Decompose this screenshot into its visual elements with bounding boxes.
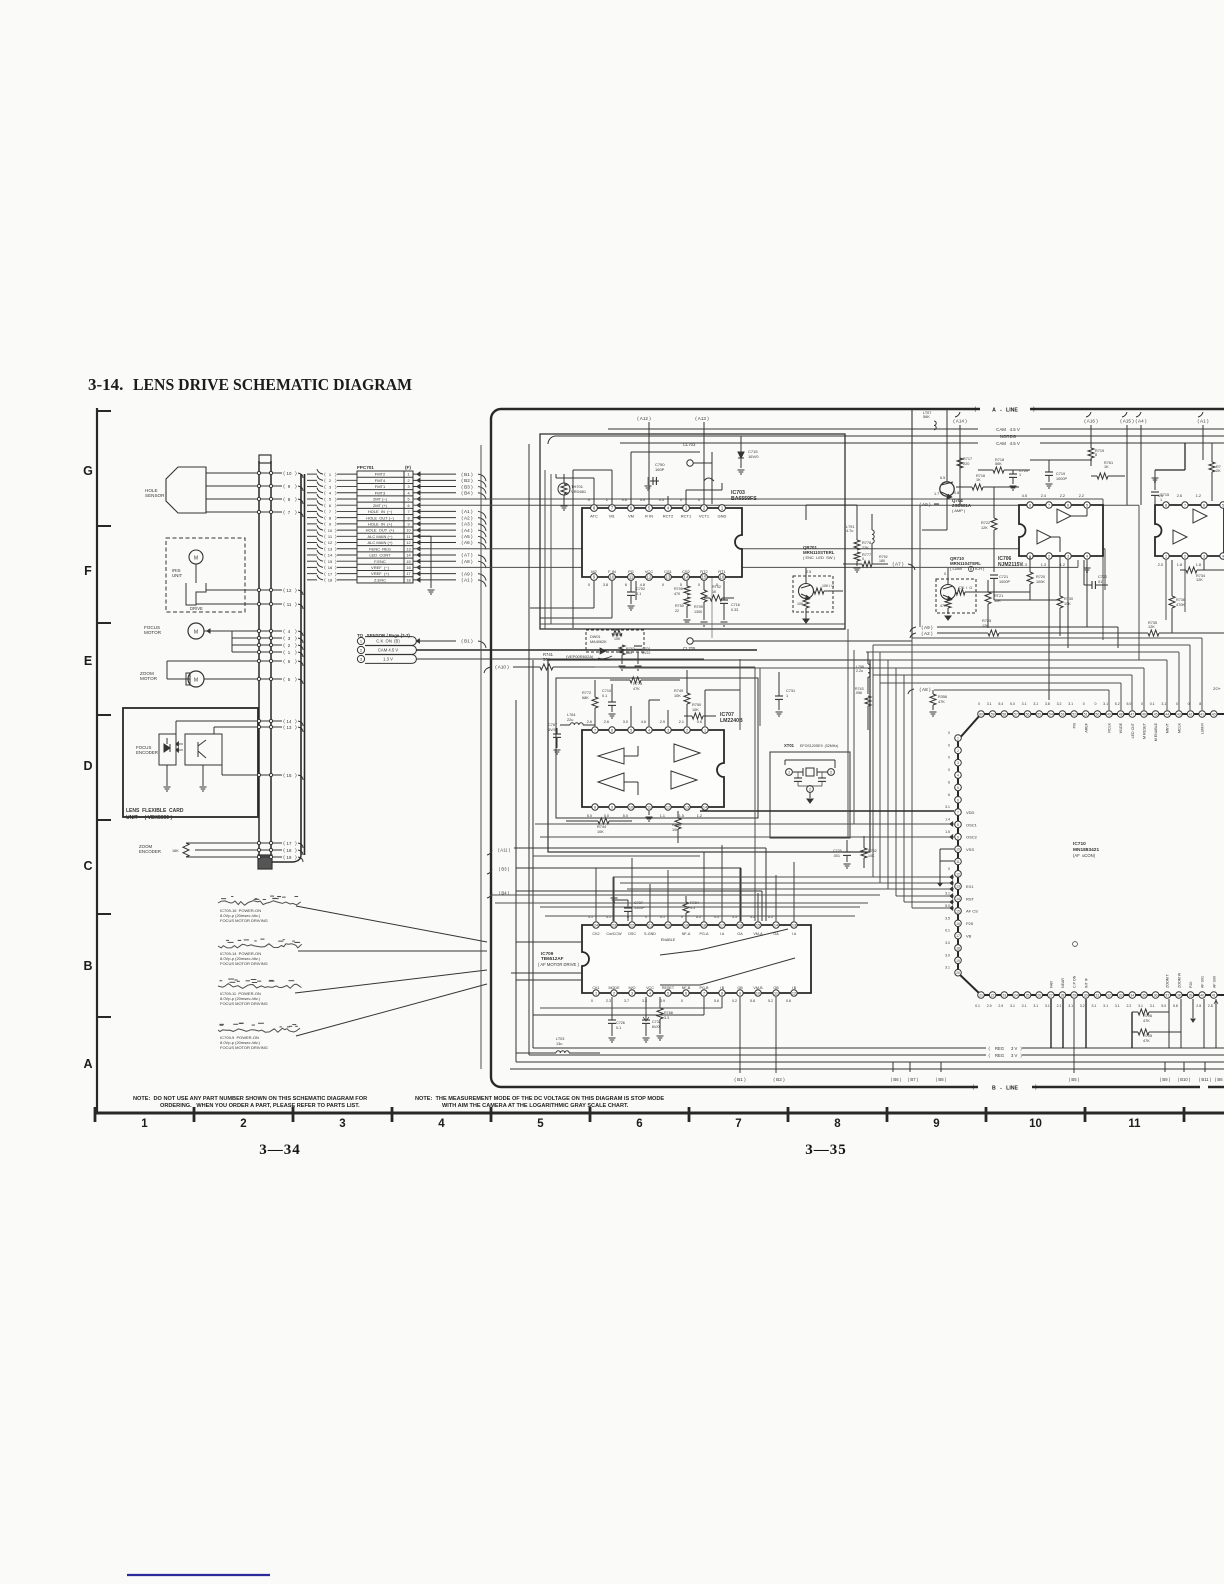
svg-text:2.6: 2.6 — [1177, 494, 1182, 498]
svg-text:FMT3: FMT3 — [375, 490, 386, 495]
svg-text:I A: I A — [720, 932, 725, 936]
svg-text:8: 8 — [721, 992, 723, 996]
svg-text:INT IF: INT IF — [1084, 977, 1088, 988]
svg-text:48: 48 — [1119, 713, 1123, 717]
svg-text:1: 1 — [595, 992, 597, 996]
svg-text:F IN: F IN — [608, 569, 616, 574]
svg-text:ZOOM T: ZOOM T — [1166, 973, 1170, 988]
svg-text:⟨: ⟨ — [283, 650, 285, 656]
svg-text:( A1 ): ( A1 ) — [1198, 419, 1209, 424]
svg-text:⟨: ⟨ — [324, 528, 326, 533]
svg-text:1.3 V: 1.3 V — [383, 657, 393, 662]
svg-text:(AF uCON): (AF uCON) — [1073, 853, 1096, 858]
svg-text:HOLE IN (+): HOLE IN (+) — [368, 521, 393, 526]
svg-text:58: 58 — [1002, 713, 1006, 717]
svg-text:⟩: ⟩ — [335, 491, 337, 496]
svg-text:C715: C715 — [1160, 493, 1169, 497]
svg-text:( A10 ): ( A10 ) — [495, 665, 509, 670]
svg-text:10K: 10K — [692, 708, 699, 712]
svg-text:8: 8 — [834, 1118, 841, 1130]
svg-text:ORDERING. WHEN YOU ORDER A P: ORDERING. WHEN YOU ORDER A PART, PLEASE … — [160, 1103, 360, 1109]
svg-text:3.1: 3.1 — [1022, 1004, 1027, 1008]
svg-text:35: 35 — [1142, 994, 1146, 998]
svg-text:M/O: M/O — [629, 986, 636, 990]
svg-text:PI0: PI0 — [1073, 723, 1077, 728]
svg-text:AF S01: AF S01 — [1201, 976, 1205, 988]
svg-text:12K: 12K — [1148, 625, 1155, 629]
svg-text:( B6 ): ( B6 ) — [891, 1077, 902, 1082]
svg-text:7: 7 — [407, 510, 409, 514]
svg-text:4: 4 — [1086, 555, 1088, 559]
svg-text:ENCODER: ENCODER — [136, 750, 158, 755]
svg-text:F: F — [84, 564, 92, 578]
svg-text:1K: 1K — [1104, 465, 1109, 469]
svg-text:11: 11 — [287, 602, 292, 607]
svg-text:22: 22 — [630, 924, 634, 928]
svg-text:4.5: 4.5 — [1022, 494, 1027, 498]
svg-text:TB6512AF: TB6512AF — [541, 956, 564, 961]
svg-text:NJM2115V: NJM2115V — [998, 562, 1023, 568]
svg-text:( AF MOTOR DRIVE ): ( AF MOTOR DRIVE ) — [538, 962, 579, 967]
svg-text:6: 6 — [948, 780, 950, 784]
svg-text:RST: RST — [966, 896, 975, 901]
svg-text:RT2: RT2 — [700, 569, 708, 574]
svg-text:10K: 10K — [797, 602, 804, 606]
svg-text:1.3: 1.3 — [1041, 563, 1046, 567]
svg-text:⟩: ⟩ — [295, 602, 297, 608]
svg-text:⟨: ⟨ — [283, 677, 285, 683]
svg-text:10: 10 — [1029, 1118, 1042, 1130]
svg-text:( A7 ): ( A7 ) — [893, 562, 904, 567]
svg-text:3: 3 — [667, 729, 669, 733]
svg-text:6V/0: 6V/0 — [548, 728, 556, 732]
svg-text:( A15 ): ( A15 ) — [1120, 419, 1134, 424]
svg-text:17: 17 — [720, 924, 724, 928]
svg-text:6: 6 — [1067, 504, 1069, 508]
svg-text:13: 13 — [792, 924, 796, 928]
svg-text:4.6: 4.6 — [641, 720, 646, 724]
svg-text:⟨: ⟨ — [324, 522, 326, 527]
svg-text:7: 7 — [703, 992, 705, 996]
svg-text:2.2: 2.2 — [1079, 494, 1084, 498]
svg-text:ENABLE: ENABLE — [661, 938, 676, 942]
svg-text:PG-B: PG-B — [699, 986, 709, 990]
svg-text:3.9: 3.9 — [945, 953, 950, 957]
svg-text:FOCUS MOTOR DRIVING: FOCUS MOTOR DRIVING — [220, 918, 268, 923]
svg-text:NEAR: NEAR — [1061, 978, 1065, 988]
svg-text:E: E — [84, 654, 92, 668]
svg-text:⟩: ⟩ — [295, 643, 297, 649]
svg-text:CK2: CK2 — [592, 932, 599, 936]
svg-text:RT02: RT02 — [712, 585, 721, 589]
svg-text:44: 44 — [1165, 713, 1169, 717]
svg-text:⟩: ⟩ — [335, 565, 337, 570]
svg-text:.056: .056 — [855, 691, 862, 695]
svg-text:470: 470 — [674, 592, 680, 596]
svg-text:NF-B: NF-B — [682, 986, 691, 990]
svg-text:0: 0 — [944, 572, 946, 576]
svg-text:53: 53 — [1061, 713, 1065, 717]
svg-text:5.0: 5.0 — [1126, 702, 1131, 706]
svg-text:3.1: 3.1 — [1068, 702, 1073, 706]
svg-text:2.5: 2.5 — [806, 570, 811, 574]
svg-text:6.5: 6.5 — [940, 476, 945, 480]
svg-text:OA: OA — [737, 932, 743, 936]
svg-text:1: 1 — [957, 737, 959, 741]
svg-text:12K: 12K — [1196, 578, 1203, 582]
svg-text:17: 17 — [328, 571, 333, 576]
svg-text:40: 40 — [1200, 994, 1204, 998]
svg-text:0: 0 — [948, 768, 950, 772]
svg-text:( B5 ): ( B5 ) — [1069, 1077, 1080, 1082]
svg-text:DRIVE: DRIVE — [190, 606, 203, 611]
svg-text:12K: 12K — [981, 526, 988, 530]
svg-text:VB: VB — [966, 933, 972, 938]
svg-text:0: 0 — [588, 498, 590, 502]
svg-text:2.9: 2.9 — [660, 720, 665, 724]
svg-text:47K I O: 47K I O — [958, 586, 972, 590]
svg-text:ENCODER: ENCODER — [139, 849, 161, 854]
svg-text:REG 3 V: REG 3 V — [995, 1053, 1018, 1058]
svg-text:19: 19 — [956, 959, 960, 963]
svg-text:14: 14 — [956, 897, 960, 901]
svg-text:0: 0 — [948, 743, 950, 747]
svg-text:⟩: ⟩ — [295, 636, 297, 642]
svg-text:0.1: 0.1 — [602, 694, 607, 698]
svg-text:31: 31 — [1096, 994, 1100, 998]
svg-text:10: 10 — [610, 575, 615, 580]
svg-text:37: 37 — [1165, 994, 1169, 998]
svg-text:⟩: ⟩ — [335, 503, 337, 508]
svg-text:( A8 ): ( A8 ) — [462, 559, 473, 564]
svg-text:⟨: ⟨ — [988, 1046, 990, 1051]
svg-text:⟩: ⟩ — [295, 484, 297, 490]
svg-text:⟨: ⟨ — [283, 471, 285, 477]
svg-text:2.9: 2.9 — [998, 1004, 1003, 1008]
svg-text:⟨: ⟨ — [283, 725, 285, 731]
svg-text:⟨: ⟨ — [324, 478, 326, 483]
svg-text:1000P: 1000P — [1056, 477, 1067, 481]
svg-text:⟨: ⟨ — [324, 540, 326, 545]
svg-text:A: A — [83, 1057, 92, 1071]
svg-text:18: 18 — [956, 946, 960, 950]
svg-text:16: 16 — [956, 922, 960, 926]
svg-text:⟨: ⟨ — [324, 534, 326, 539]
svg-text:13u: 13u — [556, 1042, 562, 1046]
svg-text:FMT4: FMT4 — [375, 478, 386, 483]
svg-text:2: 2 — [830, 771, 832, 775]
svg-text:⟩: ⟩ — [295, 725, 297, 731]
svg-text:⟨: ⟨ — [283, 773, 285, 779]
svg-text:15: 15 — [328, 559, 333, 564]
svg-text:1.1: 1.1 — [660, 814, 665, 818]
svg-text:⟩: ⟩ — [335, 540, 337, 545]
svg-text:RCT2: RCT2 — [663, 514, 674, 519]
svg-text:1.7: 1.7 — [934, 492, 939, 496]
svg-text:3.1: 3.1 — [1150, 1004, 1155, 1008]
svg-text:4: 4 — [957, 774, 959, 778]
svg-text:C719: C719 — [1056, 472, 1065, 476]
svg-text:R772: R772 — [582, 691, 591, 695]
svg-text:0.1: 0.1 — [975, 1004, 980, 1008]
svg-text:17: 17 — [406, 572, 410, 576]
svg-text:6: 6 — [1203, 504, 1205, 508]
svg-text:0.1: 0.1 — [945, 929, 950, 933]
svg-text:⟨: ⟨ — [324, 515, 326, 520]
svg-text:33: 33 — [1119, 994, 1123, 998]
svg-text:C725: C725 — [833, 849, 842, 853]
svg-text:( A9 ): ( A9 ) — [462, 571, 473, 576]
svg-text:P20: P20 — [1189, 982, 1193, 988]
svg-text:ZOOM W: ZOOM W — [1177, 972, 1181, 988]
svg-text:56K: 56K — [995, 462, 1002, 466]
svg-text:( A11 ): ( A11 ) — [498, 848, 511, 853]
svg-text:8: 8 — [1165, 504, 1167, 508]
svg-text:WITH AIM THE CAMERA AT THE LOG: WITH AIM THE CAMERA AT THE LOGARITHMIC G… — [442, 1103, 629, 1109]
svg-text:P25: P25 — [966, 921, 974, 926]
svg-text:⟩: ⟩ — [295, 497, 297, 503]
svg-text:11: 11 — [647, 806, 651, 810]
svg-text:CAM 4.5 V: CAM 4.5 V — [996, 441, 1020, 446]
svg-text:M: M — [194, 556, 198, 562]
svg-text:D: D — [83, 759, 92, 773]
svg-text:LENS FLEXIBLE CARD: LENS FLEXIBLE CARD — [126, 808, 184, 814]
svg-text:3.5: 3.5 — [945, 916, 950, 920]
svg-text:⟩: ⟩ — [335, 571, 337, 576]
svg-text:R768: R768 — [664, 1011, 673, 1015]
svg-text:5.0: 5.0 — [945, 904, 950, 908]
svg-text:R744: R744 — [597, 825, 606, 829]
svg-text:19: 19 — [287, 855, 292, 860]
svg-text:FPC701: FPC701 — [357, 465, 374, 470]
svg-text:⟩: ⟩ — [335, 522, 337, 527]
svg-text:( B3 ): ( B3 ) — [461, 484, 473, 489]
svg-text:⟨: ⟨ — [324, 547, 326, 552]
svg-text:A - LINE: A - LINE — [992, 408, 1018, 414]
svg-text:13: 13 — [956, 885, 960, 889]
svg-text:6: 6 — [407, 504, 409, 508]
svg-text:3.1: 3.1 — [1092, 1004, 1097, 1008]
svg-text:( A9 ): ( A9 ) — [920, 502, 931, 507]
svg-text:2: 2 — [606, 498, 608, 502]
svg-text:6: 6 — [636, 1118, 642, 1130]
svg-text:HOLE OUT (+): HOLE OUT (+) — [366, 528, 395, 533]
svg-text:⟩: ⟩ — [335, 553, 337, 558]
svg-text:15: 15 — [956, 909, 960, 913]
svg-text:M ENABLE: M ENABLE — [1154, 722, 1158, 741]
svg-text:⟩: ⟩ — [335, 547, 337, 552]
svg-text:G: G — [83, 464, 93, 478]
svg-text:OSC1: OSC1 — [966, 822, 978, 827]
svg-text:0-1: 0-1 — [616, 1026, 621, 1030]
svg-text:2.2: 2.2 — [1060, 494, 1065, 498]
svg-text:CS2: CS2 — [682, 569, 691, 574]
svg-text:( A9 ): ( A9 ) — [922, 625, 933, 630]
svg-text:MOTOR: MOTOR — [144, 630, 162, 635]
svg-text:⟨: ⟨ — [283, 848, 285, 854]
svg-text:16: 16 — [406, 566, 410, 570]
svg-text:10K: 10K — [674, 694, 681, 698]
svg-text:VDD: VDD — [966, 810, 975, 815]
svg-text:5: 5 — [630, 729, 632, 733]
svg-text:11: 11 — [407, 535, 411, 539]
svg-text:11: 11 — [1128, 1118, 1141, 1130]
svg-text:5: 5 — [957, 786, 959, 790]
svg-text:2: 2 — [1184, 555, 1186, 559]
svg-text:( B9 ): ( B9 ) — [1160, 1077, 1171, 1082]
svg-text:10: 10 — [956, 848, 960, 852]
svg-text:23: 23 — [612, 924, 616, 928]
svg-text:1: 1 — [704, 729, 706, 733]
svg-text:RT1: RT1 — [718, 569, 726, 574]
svg-text:10K I O: 10K I O — [822, 584, 834, 588]
svg-text:10: 10 — [287, 471, 292, 476]
svg-text:UNIT ( VEK5690 ): UNIT ( VEK5690 ) — [126, 815, 172, 821]
svg-text:1: 1 — [788, 771, 790, 775]
svg-text:47K: 47K — [940, 604, 947, 608]
svg-text:FMT1: FMT1 — [375, 484, 386, 489]
svg-text:47K: 47K — [938, 700, 945, 704]
svg-text:3—34: 3—34 — [259, 1142, 301, 1158]
svg-text:VCC: VCC — [645, 569, 654, 574]
svg-text:( A7 ): ( A7 ) — [462, 553, 473, 558]
svg-text:CAM 4.5 V: CAM 4.5 V — [996, 427, 1020, 432]
svg-text:M: M — [194, 630, 198, 636]
svg-text:M2: M2 — [591, 569, 597, 574]
svg-text:17: 17 — [956, 934, 960, 938]
svg-text:0: 0 — [1188, 702, 1190, 706]
svg-text:⟩: ⟩ — [295, 848, 297, 854]
svg-text:25: 25 — [1026, 994, 1030, 998]
svg-text:47K: 47K — [1143, 1039, 1150, 1043]
svg-text:3: 3 — [407, 485, 409, 489]
svg-text:3.9: 3.9 — [660, 999, 665, 1003]
svg-text:( A16 ): ( A16 ) — [1084, 419, 1098, 424]
svg-text:18: 18 — [406, 578, 410, 582]
svg-text:3.1: 3.1 — [1103, 702, 1108, 706]
svg-text:16: 16 — [328, 565, 333, 570]
svg-text:0: 0 — [948, 867, 950, 871]
svg-text:XT01: XT01 — [784, 743, 795, 748]
svg-text:20: 20 — [956, 971, 960, 975]
svg-text:( A2 ): ( A2 ) — [462, 515, 473, 520]
svg-text:( B10 ): ( B10 ) — [1178, 1077, 1191, 1082]
svg-text:C767: C767 — [548, 723, 557, 727]
svg-text:21: 21 — [979, 994, 983, 998]
svg-text:5.0: 5.0 — [623, 814, 628, 818]
svg-text:R750: R750 — [675, 604, 684, 608]
svg-text:⟨: ⟨ — [324, 509, 326, 514]
svg-text:1: 1 — [1165, 555, 1167, 559]
svg-text:3: 3 — [339, 1118, 345, 1130]
svg-text:14: 14 — [703, 806, 707, 810]
svg-text:⟨: ⟨ — [283, 659, 285, 665]
svg-text:( A4 ): ( A4 ) — [1136, 419, 1147, 424]
svg-text:AF CS: AF CS — [966, 909, 978, 914]
svg-text:15: 15 — [756, 924, 760, 928]
svg-text:SENSOR: SENSOR — [145, 493, 165, 498]
svg-text:45: 45 — [1154, 713, 1158, 717]
svg-text:1.8: 1.8 — [1177, 563, 1182, 567]
svg-text:MA4062K: MA4062K — [590, 640, 607, 644]
svg-text:5: 5 — [1086, 504, 1088, 508]
svg-text:50: 50 — [1096, 713, 1100, 717]
svg-text:AF S00: AF S00 — [1212, 976, 1216, 988]
svg-text:56: 56 — [1026, 713, 1030, 717]
svg-text:220: 220 — [963, 462, 969, 466]
svg-text:6V22: 6V22 — [642, 651, 650, 655]
svg-text:18: 18 — [287, 848, 292, 853]
svg-text:0: 0 — [862, 557, 864, 561]
svg-text:3: 3 — [1203, 555, 1205, 559]
svg-text:1.5: 1.5 — [945, 830, 950, 834]
svg-text:470K: 470K — [1176, 603, 1185, 607]
svg-text:27: 27 — [1049, 994, 1053, 998]
svg-text:⟨: ⟨ — [324, 578, 326, 583]
svg-text:CL705: CL705 — [683, 646, 696, 651]
svg-text:3.1: 3.1 — [1010, 1004, 1015, 1008]
svg-text:ZO+: ZO+ — [1213, 686, 1222, 691]
svg-text:22: 22 — [991, 994, 995, 998]
svg-text:24: 24 — [594, 924, 598, 928]
svg-text:3.1: 3.1 — [987, 702, 992, 706]
svg-text:R773: R773 — [633, 682, 642, 686]
svg-text:5: 5 — [667, 992, 669, 996]
svg-text:FOCUS MOTOR DRIVING: FOCUS MOTOR DRIVING — [220, 961, 268, 966]
svg-text:23: 23 — [1002, 994, 1006, 998]
svg-text:R730: R730 — [1064, 597, 1073, 601]
svg-text:16: 16 — [738, 924, 742, 928]
svg-text:( A3 ): ( A3 ) — [462, 522, 473, 527]
svg-text:3.8: 3.8 — [1045, 702, 1050, 706]
svg-text:16: 16 — [720, 575, 725, 580]
svg-text:10: 10 — [756, 992, 760, 996]
svg-text:5.0: 5.0 — [1161, 1004, 1166, 1008]
svg-text:⟩: ⟩ — [1020, 1053, 1022, 1058]
svg-text:⟨: ⟨ — [324, 484, 326, 489]
svg-text:55: 55 — [1037, 713, 1041, 717]
svg-text:⟨: ⟨ — [972, 1084, 974, 1091]
svg-text:B: B — [83, 959, 92, 973]
svg-text:C731: C731 — [786, 689, 795, 693]
svg-text:41: 41 — [1200, 713, 1204, 717]
svg-text:C.K ON (B): C.K ON (B) — [376, 639, 400, 644]
svg-text:C702: C702 — [636, 587, 645, 591]
svg-text:4: 4 — [438, 1118, 445, 1130]
svg-text:⟩: ⟩ — [335, 515, 337, 520]
svg-text:⟨: ⟨ — [324, 503, 326, 508]
svg-text:C710: C710 — [602, 689, 611, 693]
svg-text:22: 22 — [675, 609, 679, 613]
svg-text:100K: 100K — [1036, 580, 1045, 584]
svg-text:1K: 1K — [712, 590, 717, 594]
svg-text:R750: R750 — [692, 703, 701, 707]
svg-text:0: 0 — [1176, 702, 1178, 706]
svg-text:15: 15 — [287, 773, 292, 778]
svg-text:⟨: ⟨ — [324, 472, 326, 477]
svg-text:VM-B: VM-B — [753, 986, 763, 990]
svg-text:⟩: ⟩ — [295, 841, 297, 847]
svg-text:680: 680 — [626, 651, 632, 655]
svg-text:3: 3 — [957, 761, 959, 765]
svg-text:( B8 ): ( B8 ) — [936, 1077, 947, 1082]
svg-text:29: 29 — [1072, 994, 1076, 998]
svg-text:⟨: ⟨ — [283, 588, 285, 594]
svg-text:( B11 ): ( B11 ) — [1199, 1077, 1212, 1082]
svg-text:26: 26 — [1037, 994, 1041, 998]
svg-text:8: 8 — [594, 806, 596, 810]
svg-text:OB: OB — [773, 986, 779, 990]
